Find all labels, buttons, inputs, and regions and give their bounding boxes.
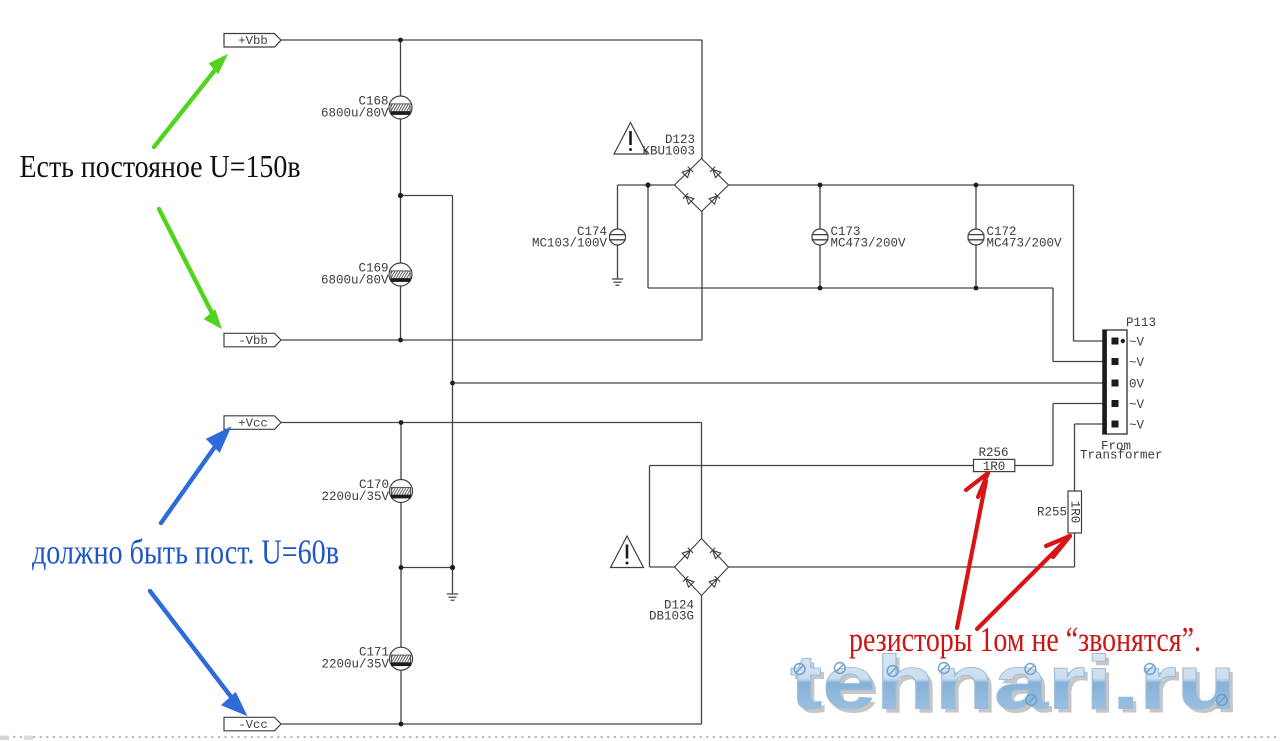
- svg-text:~V: ~V: [1129, 398, 1145, 412]
- svg-text:Transformer: Transformer: [1080, 449, 1163, 463]
- svg-text:R256: R256: [978, 446, 1008, 460]
- svg-text:MC473/200V: MC473/200V: [831, 237, 907, 251]
- svg-text:KBU1003: KBU1003: [642, 145, 695, 159]
- svg-text:2200u/35V: 2200u/35V: [321, 658, 389, 672]
- svg-text:2200u/35V: 2200u/35V: [321, 490, 389, 504]
- svg-text:~V: ~V: [1129, 419, 1145, 433]
- svg-text:R255: R255: [1037, 506, 1067, 520]
- svg-text:должно быть пост. U=60в: должно быть пост. U=60в: [32, 533, 339, 572]
- svg-text:6800u/80V: 6800u/80V: [321, 274, 389, 288]
- svg-text:~V: ~V: [1129, 336, 1145, 350]
- svg-text:Есть постояное U=150в: Есть постояное U=150в: [20, 148, 301, 184]
- svg-text:0V: 0V: [1129, 378, 1145, 392]
- svg-text:tehnari.ru: tehnari.ru: [790, 640, 1236, 725]
- svg-text:1R0: 1R0: [1068, 501, 1082, 524]
- svg-text:+Vbb: +Vbb: [238, 34, 268, 48]
- svg-text:MC473/200V: MC473/200V: [987, 237, 1063, 251]
- svg-text:6800u/80V: 6800u/80V: [321, 107, 389, 121]
- svg-text:-Vcc: -Vcc: [238, 718, 268, 732]
- svg-text:DB103G: DB103G: [649, 610, 694, 624]
- svg-text:P113: P113: [1126, 316, 1156, 330]
- svg-text:-Vbb: -Vbb: [238, 334, 268, 348]
- svg-text:MC103/100V: MC103/100V: [532, 237, 608, 251]
- svg-text:+Vcc: +Vcc: [238, 417, 268, 431]
- svg-text:~V: ~V: [1129, 356, 1145, 370]
